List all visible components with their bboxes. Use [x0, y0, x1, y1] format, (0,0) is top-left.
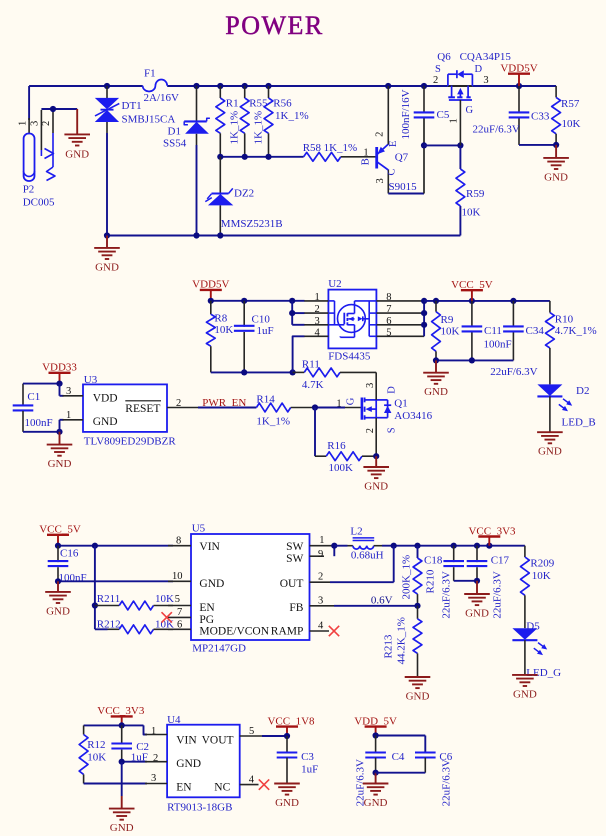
svg-text:100nF: 100nF [484, 339, 512, 351]
svg-text:PG: PG [199, 614, 214, 626]
resistor R209 10K [521, 546, 555, 629]
wire R9/C11/C34 bottoms [433, 357, 514, 363]
svg-text:100nF/16V: 100nF/16V [400, 89, 412, 139]
svg-text:22uF/6.3V: 22uF/6.3V [441, 759, 453, 806]
svg-text:1K_1%: 1K_1% [324, 142, 358, 154]
resistor R57 10K [552, 86, 581, 145]
wire VDD_5V to C4/C6 [373, 732, 426, 753]
wire U2 gate bus (pins 1-3) [289, 301, 304, 325]
svg-text:D1: D1 [168, 126, 181, 138]
resistor R9 10K [432, 301, 460, 361]
no-connect X U5 pin7 [162, 612, 172, 622]
wire EN/PG bus [92, 546, 108, 630]
svg-text:C3: C3 [301, 751, 314, 763]
svg-text:RAMP: RAMP [271, 626, 304, 638]
wire U2 right bus to VCC rail [421, 298, 550, 337]
svg-text:44.2K_1%: 44.2K_1% [396, 617, 408, 664]
svg-text:1: 1 [336, 398, 341, 409]
svg-text:GND: GND [93, 416, 118, 428]
svg-text:3: 3 [375, 178, 386, 183]
wire Q7 collector node [388, 119, 427, 194]
mosfet Q6 CQA34P15 [433, 51, 511, 146]
svg-text:TLV809ED29DBZR: TLV809ED29DBZR [84, 435, 177, 447]
svg-text:R8: R8 [214, 313, 227, 325]
svg-text:4.7K: 4.7K [302, 379, 324, 391]
svg-text:1: 1 [319, 535, 324, 546]
svg-text:GND: GND [544, 171, 568, 183]
svg-text:C1: C1 [27, 391, 40, 403]
svg-text:0.68uH: 0.68uH [351, 550, 384, 562]
connector P2 DC005 [18, 86, 56, 209]
svg-text:GND: GND [199, 578, 224, 590]
svg-text:VIN: VIN [176, 734, 197, 746]
svg-text:1K_1%: 1K_1% [256, 416, 290, 428]
svg-text:1: 1 [449, 118, 460, 123]
svg-text:GND: GND [465, 608, 489, 620]
ground GND (C4) [363, 773, 389, 809]
svg-text:5: 5 [249, 726, 254, 737]
svg-text:SW: SW [286, 541, 303, 553]
ic U4 RT9013-18GB [145, 714, 262, 813]
svg-text:R9: R9 [441, 314, 454, 326]
power flag VCC_5V (U5 section) [39, 524, 81, 546]
wire C33/R57 bottoms [519, 142, 559, 148]
svg-text:AO3416: AO3416 [394, 410, 432, 422]
svg-text:P2: P2 [23, 184, 35, 196]
svg-text:Q1: Q1 [394, 397, 407, 409]
svg-text:2: 2 [365, 428, 376, 433]
svg-text:C34: C34 [526, 325, 545, 337]
svg-text:C16: C16 [60, 548, 79, 560]
resistor R210 200K_1% [401, 546, 437, 606]
svg-text:VCC_3V3: VCC_3V3 [468, 525, 516, 537]
wire U4 pin5 to VCC_1V8 and C3 [262, 733, 290, 754]
svg-text:VCC_5V: VCC_5V [451, 279, 493, 291]
svg-text:1: 1 [315, 292, 320, 303]
ground GND (bottom rail) [94, 236, 120, 274]
ground GND (R213) [405, 677, 431, 703]
diode D1 SS54 [163, 86, 210, 236]
LED D2 LED_B [537, 384, 595, 431]
svg-text:7: 7 [177, 607, 182, 618]
wire U3 pin2 to R14 [198, 407, 256, 409]
zener diode DZ2 MMSZ5231B [205, 157, 282, 236]
svg-text:C11: C11 [484, 325, 502, 337]
svg-text:3: 3 [66, 386, 71, 397]
svg-text:2: 2 [433, 75, 438, 86]
capacitor C17 22uF/6.3V [467, 546, 510, 619]
no-connect X U5 pin4 [329, 626, 339, 636]
wire C2 bottom to U4 pin2 and GND [119, 759, 147, 796]
svg-text:3: 3 [365, 383, 376, 388]
svg-text:VCC_1V8: VCC_1V8 [267, 715, 315, 727]
svg-text:4: 4 [315, 327, 321, 338]
capacitor C6 22uF/6.3V [376, 751, 453, 807]
capacitor C18 22uF/6.3V [424, 546, 477, 619]
svg-text:EN: EN [199, 602, 215, 614]
svg-text:1uF: 1uF [301, 763, 318, 775]
svg-text:LED_B: LED_B [562, 417, 596, 429]
svg-text:3: 3 [315, 316, 320, 327]
TVS diode DT1 SMBJ15CA [95, 86, 176, 236]
wire C5/gate node to R59 [424, 142, 464, 169]
svg-text:FDS4435: FDS4435 [328, 351, 371, 363]
svg-text:R58: R58 [303, 142, 322, 154]
svg-text:GND: GND [538, 446, 562, 458]
svg-text:3: 3 [483, 75, 488, 86]
power flag VDD5V (U2 section) [192, 279, 229, 301]
mosfet U2 FDS4435 [304, 278, 424, 363]
svg-text:3: 3 [151, 773, 156, 784]
inductor L2 0.68uH [348, 526, 384, 562]
svg-text:R14: R14 [256, 393, 275, 405]
ic U5 MP2147GD [168, 523, 334, 655]
svg-text:8: 8 [176, 535, 181, 546]
ground GND (Q1/R16) [363, 456, 389, 492]
svg-text:VDD33: VDD33 [42, 362, 77, 374]
svg-text:R211: R211 [97, 593, 120, 605]
svg-text:GND: GND [46, 605, 70, 617]
svg-text:EN: EN [176, 782, 192, 794]
svg-text:10K: 10K [87, 752, 106, 764]
no-connect X U4 pin4 [259, 779, 269, 789]
power flag VCC_5V (U2 section) [451, 279, 493, 301]
net label PWR_EN [202, 397, 246, 409]
svg-text:1uF: 1uF [257, 325, 274, 337]
svg-text:2: 2 [153, 753, 158, 764]
svg-text:C33: C33 [531, 110, 550, 122]
resistor R14 1K_1% [256, 393, 315, 427]
wire P2 pins 3,2 to GND [41, 106, 77, 112]
svg-text:GND: GND [65, 149, 89, 161]
svg-text:R213: R213 [383, 634, 395, 658]
ground GND (U3/C1) [47, 432, 73, 470]
svg-text:Q6: Q6 [437, 51, 451, 63]
power flag VDD_5V [354, 715, 397, 735]
svg-text:VDD5V: VDD5V [500, 63, 537, 75]
svg-text:VCC_5V: VCC_5V [39, 524, 81, 536]
svg-text:9: 9 [318, 549, 323, 560]
svg-text:CQA34P15: CQA34P15 [460, 51, 512, 63]
svg-text:VCC_3V3: VCC_3V3 [97, 705, 145, 717]
svg-text:10K: 10K [532, 570, 551, 582]
svg-text:22uF/6.3V: 22uF/6.3V [492, 571, 504, 618]
svg-text:G: G [466, 105, 474, 116]
resistor R59 10K [456, 169, 485, 219]
svg-text:10: 10 [172, 571, 183, 582]
wire R8/C10 bottoms to R11 [211, 369, 296, 375]
ground GND (D5) [512, 675, 538, 701]
svg-text:GND: GND [48, 458, 72, 470]
resistor R212 10K [97, 619, 174, 634]
svg-text:VOUT: VOUT [202, 734, 234, 746]
svg-text:S: S [387, 427, 398, 433]
svg-text:R16: R16 [327, 440, 346, 452]
svg-text:GND: GND [364, 481, 388, 493]
svg-text:3: 3 [318, 596, 323, 607]
svg-text:DT1: DT1 [122, 100, 142, 112]
svg-text:10K: 10K [441, 326, 460, 338]
svg-text:R10: R10 [555, 313, 574, 325]
net label 0.6V [371, 595, 393, 607]
svg-text:2: 2 [318, 572, 323, 583]
wire bottom rail to ground [104, 206, 461, 239]
svg-text:U2: U2 [328, 278, 341, 290]
svg-text:2: 2 [315, 304, 320, 315]
svg-text:200K_1%: 200K_1% [401, 555, 413, 600]
svg-text:U3: U3 [84, 374, 98, 386]
svg-text:Q7: Q7 [395, 152, 409, 164]
svg-text:100nF: 100nF [25, 417, 53, 429]
title POWER [225, 11, 324, 40]
ground GND (C3) [274, 784, 300, 810]
svg-text:RT9013-18GB: RT9013-18GB [167, 801, 232, 813]
wire U5 pin3 FB node [334, 603, 421, 609]
ground GND (C16) [45, 581, 71, 617]
svg-text:SMBJ15CA: SMBJ15CA [122, 114, 176, 126]
svg-text:POWER: POWER [225, 11, 324, 40]
svg-text:1K_1%: 1K_1% [253, 111, 265, 145]
svg-text:10K: 10K [562, 118, 581, 130]
resistor R8 10K [206, 301, 233, 373]
LED D5 LED_G [512, 620, 561, 679]
resistor R56 1K_1% [264, 86, 309, 157]
svg-text:U5: U5 [192, 523, 206, 535]
power flag VCC_3V3 (U4 section) [97, 705, 145, 725]
svg-text:GND: GND [110, 822, 134, 834]
transistor Q7 S9015 [361, 86, 418, 194]
svg-text:R210: R210 [425, 569, 437, 593]
svg-text:SW: SW [286, 553, 303, 565]
svg-text:C18: C18 [424, 555, 443, 567]
wire U2 pin4 to R11 node [293, 336, 305, 372]
ground GND (C33/R57) [543, 145, 569, 184]
svg-text:GND: GND [406, 691, 430, 703]
svg-text:R59: R59 [466, 188, 485, 200]
wire C1 bottom to U3 pin1 and GND [23, 420, 64, 435]
resistor R11 4.7K [293, 358, 377, 391]
svg-text:3: 3 [30, 121, 41, 126]
wire resistor-bottoms node [217, 154, 303, 160]
svg-text:1K_1%: 1K_1% [275, 110, 309, 122]
svg-text:22uF/6.3V: 22uF/6.3V [441, 571, 453, 618]
wire L2 to VCC_3V3 node [382, 543, 525, 549]
svg-text:4: 4 [249, 774, 255, 785]
svg-text:GND: GND [275, 797, 299, 809]
svg-text:1: 1 [363, 148, 368, 159]
svg-text:D: D [475, 64, 483, 75]
power flag VDD33 [42, 362, 77, 384]
svg-text:B: B [361, 158, 372, 165]
svg-text:MMSZ5231B: MMSZ5231B [221, 218, 283, 230]
capacitor C2 1uF [111, 725, 149, 763]
svg-text:LED_G: LED_G [526, 667, 561, 679]
svg-text:VIN: VIN [199, 541, 220, 553]
svg-text:R212: R212 [97, 619, 121, 631]
svg-text:10K: 10K [462, 207, 481, 219]
ground GND (R9/C11/C34) [423, 360, 449, 398]
svg-text:C4: C4 [392, 751, 405, 763]
svg-text:7: 7 [386, 304, 391, 315]
svg-text:E: E [388, 141, 399, 147]
resistor R10 4.7K_1% [546, 301, 597, 385]
svg-text:VDD_5V: VDD_5V [354, 715, 397, 727]
wire C16 bottom to U5 pin10 [55, 578, 173, 584]
wire R12 bottom to U4 pin3 [84, 783, 147, 785]
resistor R12 10K [79, 725, 106, 783]
capacitor C1 100nF [13, 384, 53, 432]
capacitor C5 100nF/16V [400, 86, 450, 140]
resistor R58 1K_1% [303, 142, 362, 161]
svg-text:1: 1 [66, 410, 71, 421]
power flag VDD5V (top) [500, 63, 537, 87]
svg-text:R57: R57 [561, 98, 580, 110]
wire U5 pin2 OUT up to node [330, 546, 394, 583]
svg-text:RESET: RESET [125, 403, 160, 415]
power flag VCC_3V3 (U5 section) [468, 525, 516, 545]
ground GND (D2) [537, 432, 563, 458]
wire VDD5V rail to U2 [208, 298, 305, 304]
svg-text:GND: GND [424, 386, 448, 398]
svg-text:10K: 10K [214, 324, 233, 336]
wire U5 pin9 to pin1 [331, 543, 347, 557]
ic U3 TLV809ED29DBZR [63, 374, 201, 448]
svg-text:22uF/6.3V: 22uF/6.3V [473, 123, 520, 135]
resistor R55 1K_1% [240, 86, 268, 157]
svg-text:L2: L2 [350, 526, 362, 538]
svg-text:R11: R11 [302, 358, 320, 370]
svg-text:C: C [387, 168, 398, 175]
svg-text:D: D [387, 386, 398, 394]
wire top rail VIN [29, 85, 556, 87]
wire R14 to Q1 gate / R16 [312, 404, 345, 456]
svg-text:GND: GND [176, 758, 201, 770]
svg-text:MP2147GD: MP2147GD [192, 643, 246, 655]
ground GND (P2) [64, 109, 90, 161]
power flag VCC_1V8 [267, 715, 315, 736]
svg-text:C10: C10 [252, 314, 271, 326]
svg-text:10K: 10K [155, 593, 174, 605]
svg-text:GND: GND [513, 688, 537, 700]
svg-text:1K_1%: 1K_1% [229, 111, 241, 145]
svg-text:2A/16V: 2A/16V [144, 92, 180, 104]
svg-text:4.7K_1%: 4.7K_1% [555, 325, 597, 337]
wire VCC_3V3 node [84, 722, 147, 734]
svg-text:SS54: SS54 [163, 138, 187, 150]
ground GND (C17/C18) [464, 581, 490, 620]
svg-text:R12: R12 [87, 739, 105, 751]
svg-text:MODE/VCON: MODE/VCON [199, 626, 269, 638]
svg-text:DZ2: DZ2 [234, 188, 254, 200]
resistor R16 100K [315, 440, 379, 474]
svg-text:2: 2 [375, 132, 386, 137]
resistor R211 10K [95, 593, 174, 610]
svg-text:VDD5V: VDD5V [192, 279, 229, 291]
svg-text:5: 5 [386, 327, 391, 338]
capacitor C3 1uF [277, 751, 319, 784]
svg-text:2: 2 [176, 398, 181, 409]
svg-text:F1: F1 [144, 68, 156, 80]
svg-text:2: 2 [41, 121, 52, 126]
capacitor C11 100nF [462, 301, 512, 361]
wire VCC_5V to U5 pin8 [55, 543, 173, 549]
svg-text:GND: GND [364, 797, 388, 809]
svg-text:R209: R209 [530, 558, 554, 570]
svg-text:U4: U4 [167, 714, 181, 726]
svg-text:R1: R1 [226, 98, 239, 110]
capacitor C16 100nF [48, 546, 87, 584]
svg-text:4: 4 [318, 621, 324, 632]
svg-text:6: 6 [386, 316, 391, 327]
svg-text:100K: 100K [329, 462, 354, 474]
svg-text:DC005: DC005 [23, 197, 55, 209]
svg-text:6: 6 [177, 620, 182, 631]
svg-text:1: 1 [18, 121, 29, 126]
svg-text:NC: NC [214, 782, 230, 794]
capacitor C10 1uF [234, 301, 274, 373]
junction dots on top rail [104, 83, 522, 89]
svg-text:D2: D2 [576, 385, 589, 397]
capacitor C34 22uF/6.3V [490, 301, 544, 378]
resistor R213 44.2K_1% [383, 606, 422, 677]
wire VDD33 node to C1 and U3 pin3 [23, 381, 64, 396]
svg-text:VDD: VDD [93, 392, 118, 404]
svg-text:8: 8 [386, 292, 391, 303]
svg-text:OUT: OUT [280, 578, 304, 590]
svg-text:S9015: S9015 [389, 181, 418, 193]
capacitor C4 22uF/6.3V [355, 751, 405, 807]
svg-text:FB: FB [289, 602, 303, 614]
svg-text:1: 1 [151, 726, 156, 737]
svg-text:D5: D5 [526, 620, 540, 632]
svg-text:5: 5 [175, 594, 180, 605]
resistor R1 1K_1% [216, 86, 241, 157]
svg-text:G: G [346, 397, 357, 405]
mosfet Q1 AO3416 [336, 372, 432, 456]
svg-text:R56: R56 [273, 98, 292, 110]
svg-text:S: S [435, 64, 441, 75]
fuse F1 [143, 68, 179, 105]
svg-text:22uF/6.3V: 22uF/6.3V [490, 366, 537, 378]
ground GND (C2) [109, 796, 135, 834]
svg-text:C17: C17 [491, 555, 510, 567]
svg-text:GND: GND [95, 261, 119, 273]
capacitor C33 22uF/6.3V [473, 86, 550, 145]
